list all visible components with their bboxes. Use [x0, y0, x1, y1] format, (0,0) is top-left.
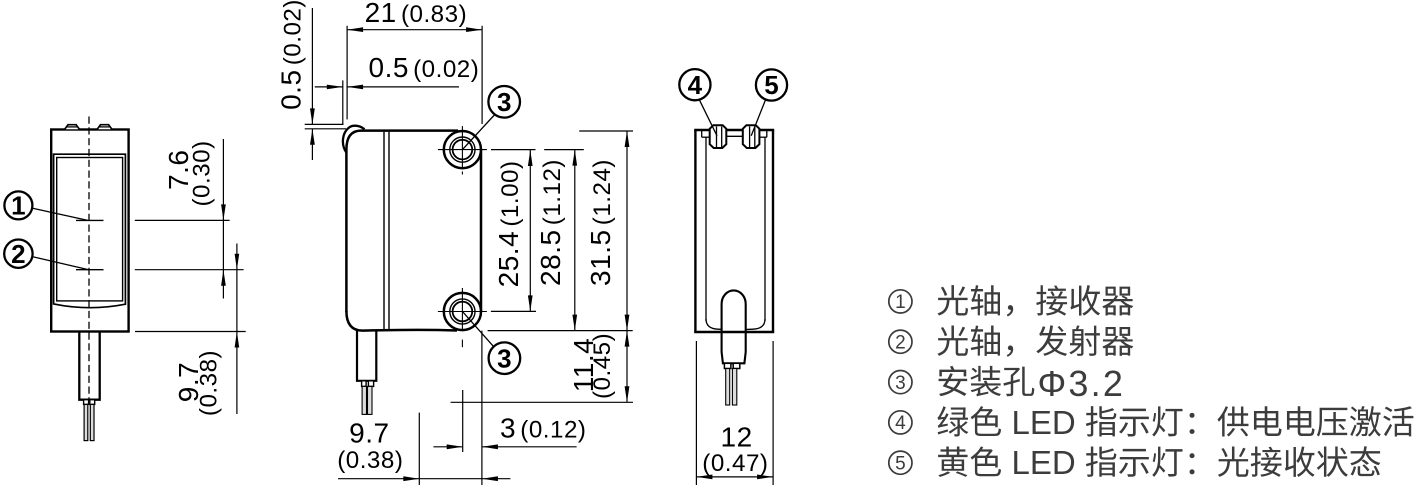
lens window outer: [54, 154, 126, 307]
green LED inner lines: [716, 127, 718, 148]
arrow 0.5v up: [310, 129, 315, 145]
ext line hole2 vert: [462, 390, 464, 452]
wire right (front view): [90, 404, 94, 440]
svg-text:9.7: 9.7: [349, 418, 389, 449]
yellow LED inner lines: [749, 127, 751, 148]
svg-text:31.5(1.24): 31.5(1.24): [585, 159, 616, 286]
ext line 9.7 ref: [418, 413, 420, 485]
leader line 3 bottom: [463, 312, 494, 347]
dim line 7.6: [222, 139, 224, 299]
arrow 12 left: [696, 475, 712, 480]
dim line 0.5 left part: [315, 86, 343, 88]
LED bump left inner line: [67, 126, 77, 128]
legend 5 yellow LED: [938, 444, 1380, 481]
leader line 5: [751, 99, 766, 136]
ext line dome top: [305, 123, 344, 125]
rear body top edge: [694, 129, 774, 131]
svg-text:0.5(0.02): 0.5(0.02): [276, 0, 307, 110]
dim line 0.5 vert lower tail: [311, 129, 313, 160]
sensor front view body: [51, 130, 128, 332]
arrow 9.7s left-point: [482, 476, 498, 481]
yellow LED window: [743, 125, 760, 148]
legend circle 1: [889, 290, 912, 313]
svg-text:3: 3: [497, 87, 511, 117]
ext line body bottom (side): [488, 330, 633, 332]
ext line body top left: [305, 128, 346, 130]
arrow 28.5 top: [572, 150, 577, 166]
cable gland (front view): [79, 332, 99, 400]
ext line dome front: [342, 80, 344, 124]
gland tab left (side): [362, 381, 367, 387]
rear inner line between LEDs: [726, 135, 743, 137]
leader line 1: [32, 208, 88, 220]
ext line body top right: [579, 130, 633, 132]
ext line hole2 center: [491, 310, 536, 312]
arrow 3 left-point: [482, 444, 498, 449]
cable gland (side view): [357, 330, 376, 381]
dim line 25.4: [529, 150, 531, 311]
ext line right edge: [481, 26, 483, 124]
rear gland: [722, 290, 746, 363]
arrow 11.4 top: [625, 331, 630, 347]
callout circle 4: [679, 69, 710, 100]
ext line axis1: [135, 219, 230, 221]
arrow 11.4 bottom: [625, 386, 630, 402]
rear wire right: [732, 369, 736, 406]
LED bump right (front view): [97, 125, 112, 130]
legend circle 3: [889, 371, 912, 394]
ext line axis2: [135, 269, 244, 271]
mounting boss top: [438, 126, 487, 169]
optical axis tick 2: [76, 269, 104, 271]
callout circle 1: [4, 191, 32, 219]
svg-text:1: 1: [11, 191, 25, 221]
svg-text:(0.47): (0.47): [702, 450, 768, 477]
arrow 28.5 bottom: [572, 315, 577, 331]
rear view inner wall right: [764, 137, 766, 321]
lens dome (side view): [343, 126, 365, 153]
leader line 3 top: [463, 115, 495, 150]
rear inner top left step: [701, 131, 703, 137]
dim line 3 left part: [433, 446, 462, 448]
rear body right edge: [772, 130, 774, 332]
svg-text:(0.38): (0.38): [337, 447, 403, 474]
rear body left edge: [694, 130, 696, 332]
arrow 25.4 top: [528, 150, 533, 166]
ext line hole1 center b: [544, 149, 584, 151]
dim line 9.7 (side): [338, 478, 510, 480]
ext line left edge: [346, 26, 348, 120]
lens window inner: [57, 158, 123, 301]
ext line gland bottom level: [451, 401, 633, 403]
boss bottom center dash: [461, 340, 463, 348]
svg-text:2: 2: [11, 239, 25, 269]
callout circle 3 bottom: [489, 342, 521, 374]
gland tab right: [90, 400, 95, 405]
svg-text:0.5(0.02): 0.5(0.02): [369, 52, 480, 83]
callout circle 3 top: [488, 86, 520, 118]
legend 1 optical axis receiver: [937, 285, 1133, 316]
dim line 12: [696, 476, 773, 478]
arrow 31.5 top: [625, 131, 630, 147]
arrow 21 right: [466, 27, 482, 32]
arrow 7.6 top: [221, 204, 226, 220]
rear gland tab left: [724, 363, 731, 368]
arrow 31.5 bottom: [625, 315, 630, 331]
dim line 21: [347, 29, 482, 31]
legend circle 2: [889, 330, 912, 353]
arrow 7.6 bottom: [221, 270, 226, 286]
green LED window: [710, 125, 727, 148]
center line (dashed): [88, 117, 90, 400]
callout circle 2: [4, 240, 32, 268]
rear view inner bottom sag: [706, 319, 765, 330]
leader line 2: [32, 257, 89, 270]
ext line right edge vert: [481, 331, 483, 485]
legend 3 mounting hole: [939, 366, 1035, 397]
side view body outline: [346, 131, 481, 331]
arrow 12 right: [757, 475, 773, 480]
boss top center dot: [461, 172, 463, 175]
ext line hole1 center: [491, 149, 536, 151]
rear gland tab right: [733, 363, 740, 368]
svg-text:3(0.12): 3(0.12): [500, 413, 586, 444]
legend circle 5: [889, 451, 912, 474]
dim line 9.7 (front): [236, 244, 238, 415]
arrow 21 left: [347, 27, 363, 32]
svg-text:(0.30): (0.30): [189, 140, 216, 206]
arrow 0.5v down: [310, 108, 315, 124]
legend 2 optical axis emitter: [937, 325, 1133, 356]
legend circle 4: [889, 411, 912, 434]
svg-text:LED: LED: [1012, 404, 1076, 441]
svg-text:(0.38): (0.38): [196, 350, 223, 416]
mounting boss bottom: [438, 288, 487, 331]
arrow 9.7s right-point: [403, 476, 419, 481]
dim line 0.5 vert: [311, 8, 313, 124]
arrow 3 right-point: [447, 444, 463, 449]
wire left (side view): [362, 386, 366, 414]
svg-text:3: 3: [895, 373, 906, 394]
LED bump left (front view): [65, 125, 80, 130]
callout circle 5: [756, 69, 787, 100]
svg-text:4: 4: [688, 70, 703, 100]
arrow 0.5 left-point: [347, 85, 363, 90]
svg-text:1: 1: [895, 292, 906, 313]
rear view inner wall left: [705, 137, 707, 321]
svg-text:28.5(1.12): 28.5(1.12): [535, 159, 566, 286]
ext line rear right: [772, 341, 774, 485]
arrow 9.7 top: [235, 254, 240, 270]
svg-text:12: 12: [721, 422, 753, 453]
dim line 11.4: [626, 331, 628, 403]
ext line rear left: [695, 341, 697, 485]
dim line 31.5: [626, 131, 628, 331]
svg-text:5: 5: [895, 453, 906, 474]
dim line 28.5: [574, 150, 576, 331]
arrow 9.7 bottom: [235, 332, 240, 348]
dim line 3 right part: [482, 446, 577, 448]
svg-text:(0.45): (0.45): [589, 333, 616, 399]
arrow 25.4 bottom: [528, 295, 533, 311]
svg-text:5: 5: [764, 70, 778, 100]
wire right (side view): [368, 386, 373, 414]
gland tab left: [84, 400, 89, 405]
svg-text:Φ3.2: Φ3.2: [1038, 363, 1126, 404]
LED bump right inner line: [100, 126, 110, 128]
arrow 0.5 right-point: [327, 85, 343, 90]
svg-text:LED: LED: [1012, 444, 1076, 481]
svg-text:21(0.83): 21(0.83): [365, 0, 468, 28]
gland tab right (side): [368, 381, 373, 387]
legend 4 green LED: [937, 404, 1413, 441]
rear body bottom edge: [694, 331, 774, 333]
svg-text:2: 2: [895, 332, 906, 353]
leader line 4: [699, 100, 717, 136]
svg-text:25.4(1.00): 25.4(1.00): [493, 160, 524, 287]
svg-text:4: 4: [895, 413, 906, 434]
ext line body bottom (front): [135, 331, 246, 333]
wire left (front view): [84, 404, 88, 440]
optical axis tick 1: [76, 219, 104, 221]
svg-text:3: 3: [497, 343, 511, 373]
dim line 0.5 right part: [347, 86, 459, 88]
front face seam lines: [383, 132, 385, 329]
rear wire left: [726, 369, 730, 406]
rear inner top right step: [766, 131, 768, 137]
